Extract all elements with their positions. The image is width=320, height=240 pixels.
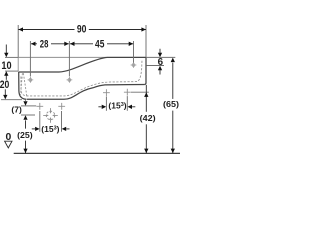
dim 28 line [31, 43, 69, 45]
dim 6 extension line bottom [146, 65, 164, 67]
fixing hole cross left 1 [36, 103, 43, 110]
basin front rim outline (thick) [19, 57, 146, 72]
dim 20 bottom arrow [3, 89, 7, 99]
tap hole cross 3 [131, 62, 137, 68]
dim (65) line [172, 63, 174, 154]
dim (42) line [145, 85, 147, 153]
dim (65) arrows [171, 58, 175, 154]
siphon dashed circle [43, 108, 58, 123]
dim 90 extension line right [145, 25, 147, 57]
dim 6 extension line top [146, 56, 175, 58]
svg-text:10: 10 [1, 60, 11, 72]
dim (7) top arrow [23, 100, 27, 106]
svg-text:28: 28 [40, 39, 49, 51]
dim (15) right tick 2 [126, 96, 128, 111]
dim (25) line with bottom arrow at siphon [23, 115, 27, 153]
dim 90 arrows [19, 27, 146, 31]
dim 10 extension lines [5, 56, 18, 58]
svg-text:(42): (42) [140, 113, 156, 123]
dim 90 extension line left [17, 25, 19, 57]
dim (42) extension from cross right 2 [131, 91, 149, 93]
dim 90 line [18, 29, 145, 31]
dim 45 extension line (tap 3) [133, 41, 135, 63]
basin bottom-left curve [19, 72, 27, 99]
fixing hole cross right 2 [124, 89, 131, 96]
dim 28 arrows [31, 42, 69, 46]
floor line [14, 152, 180, 154]
dim (7) extension line at holes [21, 105, 36, 107]
basin right edge [145, 57, 146, 84]
dim (65) label [162, 100, 181, 110]
dim 45 arrows [70, 42, 133, 46]
dim (7) extension line at siphon [21, 114, 35, 116]
dim 6 bottom arrow [158, 66, 162, 75]
fixing hole cross left 2 [58, 103, 65, 110]
tap hole cross 2 [67, 77, 73, 83]
dim 28 extension line (tap 1) [29, 41, 31, 77]
dim (15) left tick 2 [61, 111, 63, 132]
dim 45 line [70, 43, 133, 45]
dim (15) left tick 1 [39, 111, 41, 132]
svg-text:(153): (153) [108, 101, 126, 111]
ground level triangle [5, 141, 12, 148]
svg-text:(25): (25) [17, 130, 33, 140]
svg-text:(153): (153) [41, 124, 59, 134]
dim 28 extension line (tap 2) [68, 41, 70, 77]
dim (42) arrows [144, 92, 148, 153]
svg-text:90: 90 [77, 24, 87, 36]
dim 6 top arrow [158, 49, 162, 58]
dim 10 bottom arrow [4, 71, 8, 80]
dashed inner bowl contour [21, 60, 142, 96]
dim 20 extension line [1, 99, 22, 101]
basin back top edge (thin) [18, 56, 106, 58]
dim (42) label [138, 113, 157, 124]
svg-text:20: 20 [0, 79, 9, 91]
dim 10 top arrow [4, 45, 8, 58]
dim (15) right tick 1 [105, 97, 107, 111]
basin bowl flat bottom [27, 85, 145, 100]
basin left edge upper (thin) [17, 57, 19, 71]
svg-text:(7): (7) [11, 105, 22, 115]
dim (15) left arrows [32, 127, 70, 131]
svg-text:45: 45 [95, 39, 104, 51]
svg-text:6: 6 [158, 57, 164, 68]
fixing hole cross right 1 [103, 89, 110, 96]
dim (15) right label [108, 102, 127, 111]
tap hole cross 1 [28, 77, 34, 83]
svg-text:(65): (65) [163, 99, 179, 109]
dim (15) right arrows [98, 105, 135, 109]
dashed drain cone [20, 73, 26, 96]
